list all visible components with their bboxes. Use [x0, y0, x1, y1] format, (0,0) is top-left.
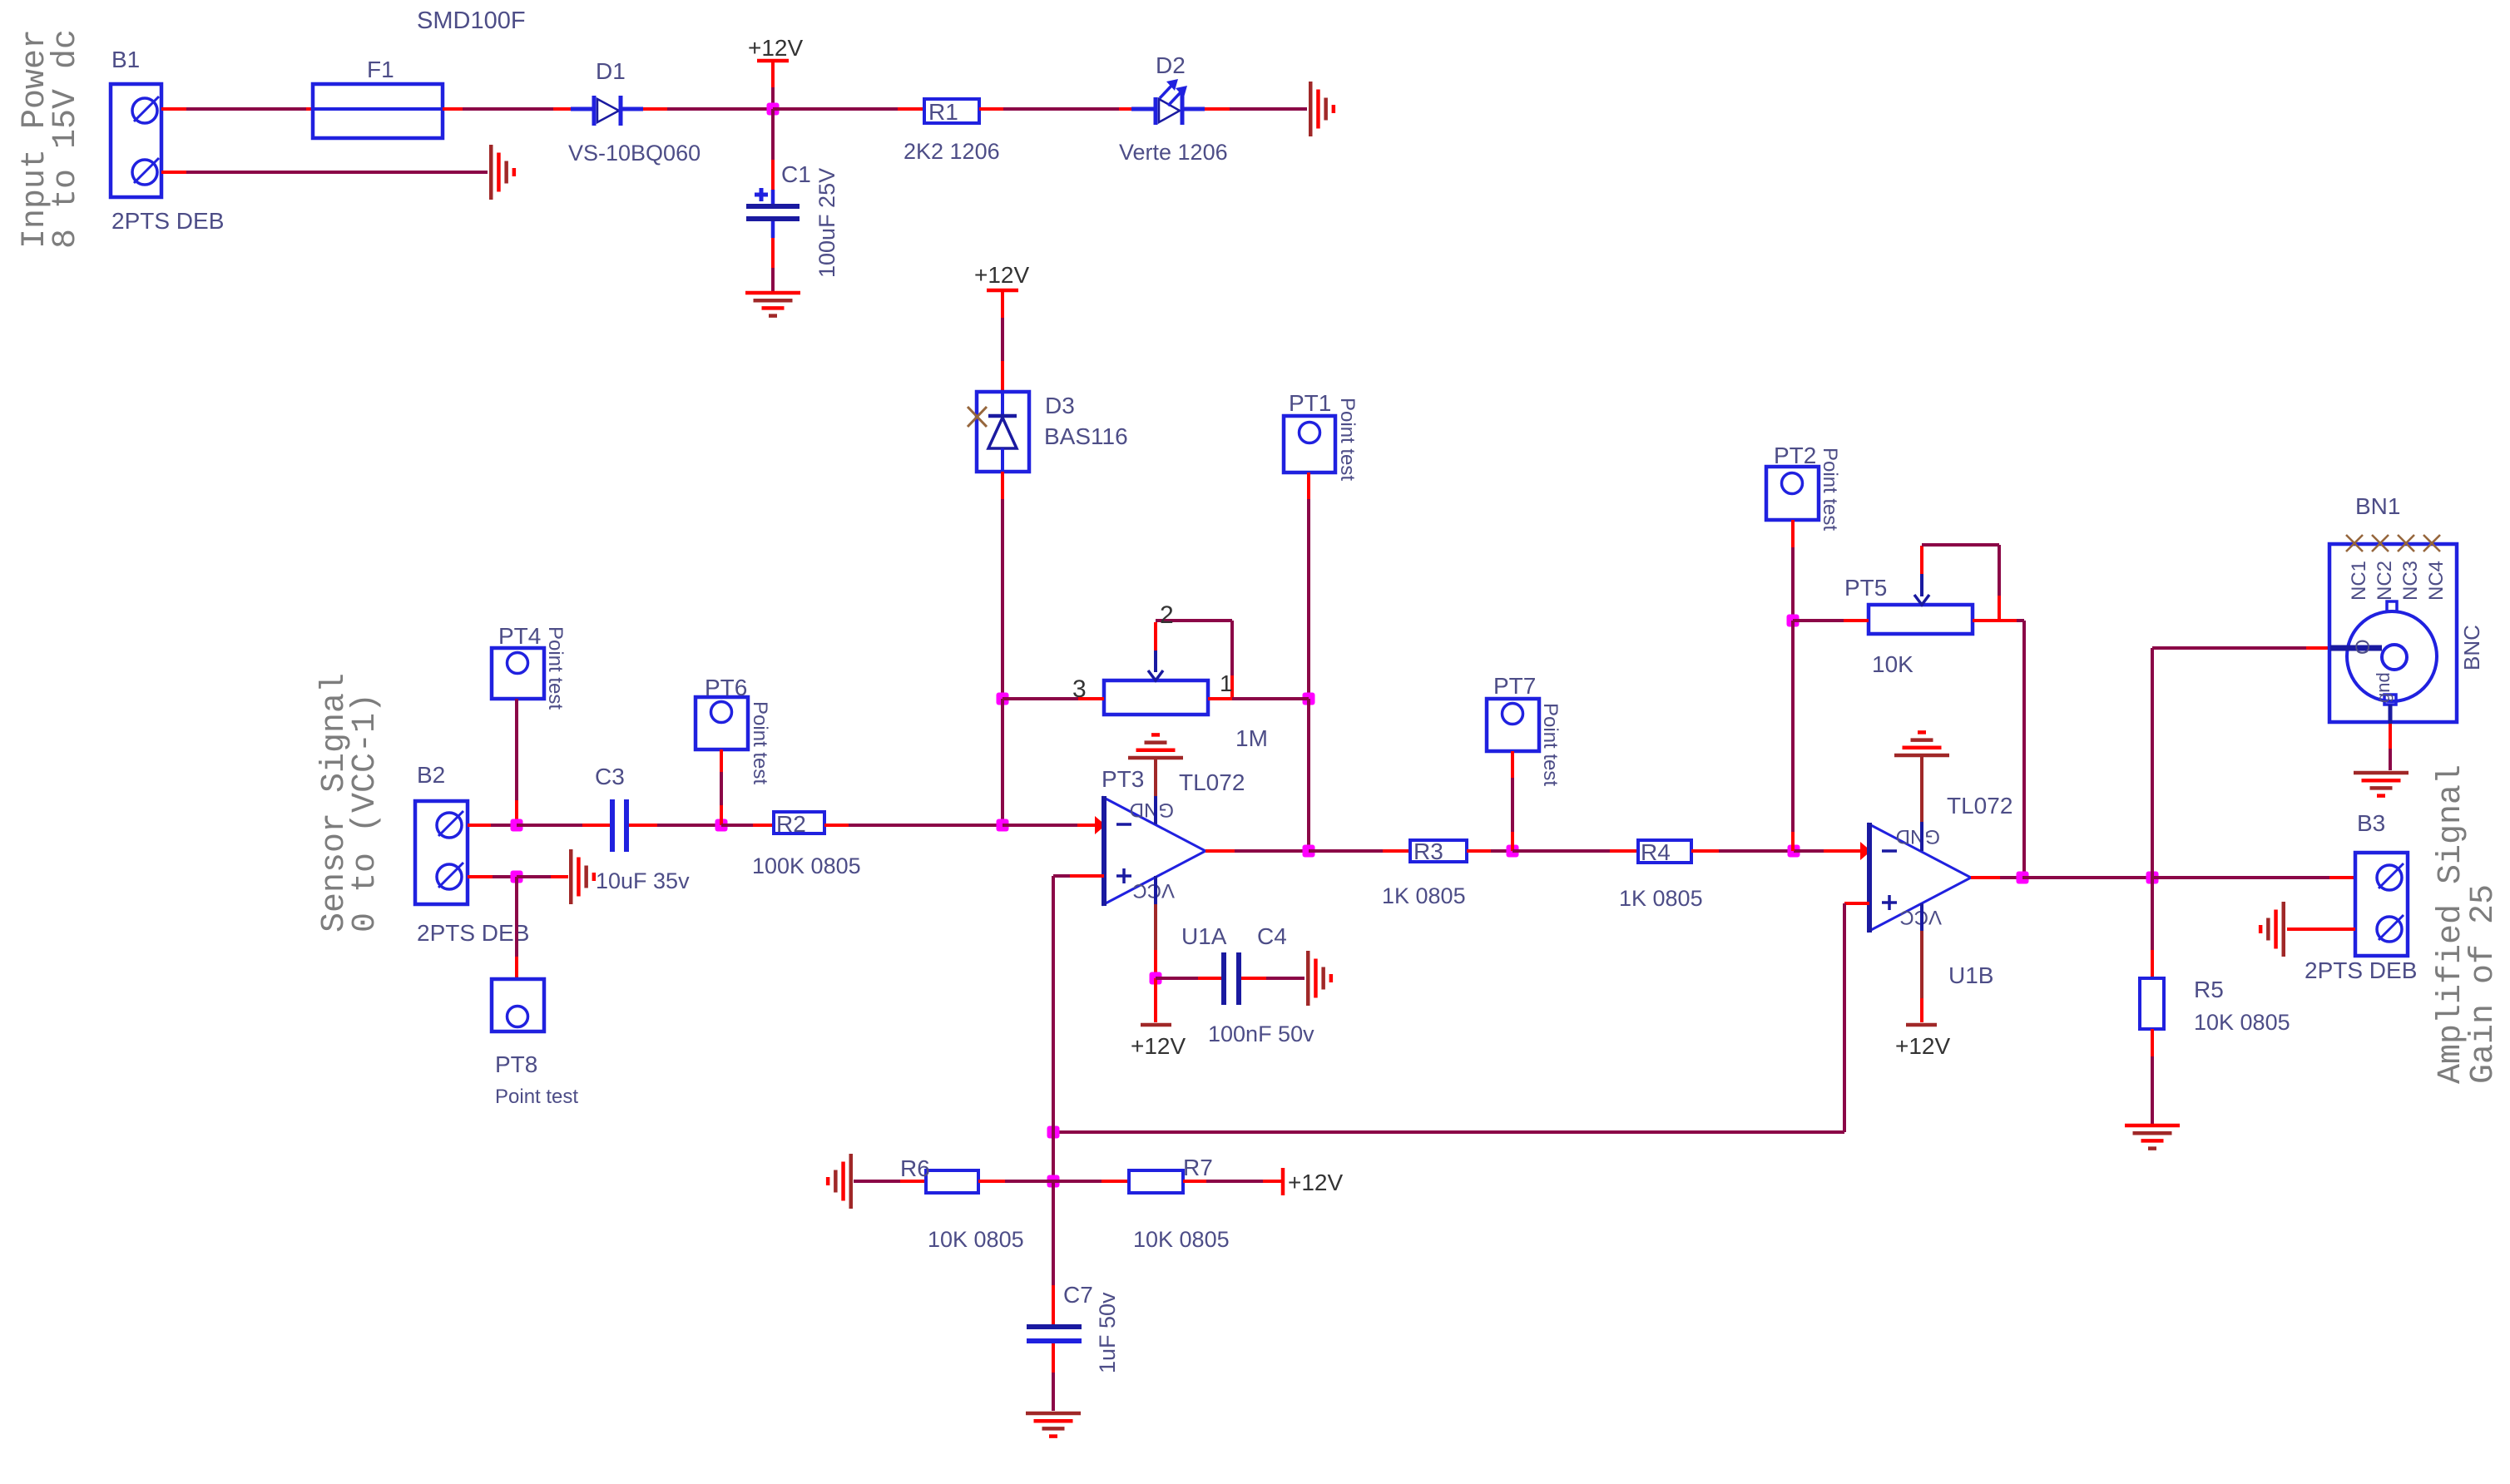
- svg-text:Point test: Point test: [1336, 398, 1359, 481]
- trimmer PT5 pin2 loop: [1922, 543, 1999, 547]
- wire node up to BNC row: [2151, 648, 2154, 878]
- wire PT1 down: [1307, 472, 1310, 499]
- svg-text:PT2: PT2: [1774, 443, 1816, 468]
- resistor R2: [774, 812, 824, 834]
- svg-text:2PTS DEB: 2PTS DEB: [2305, 957, 2417, 983]
- svg-text:R4: R4: [1641, 839, 1671, 865]
- svg-text:F1: F1: [367, 57, 394, 82]
- svg-text:R6: R6: [900, 1155, 930, 1181]
- BNC bottom tab: [2384, 695, 2396, 705]
- ground R6: [849, 1154, 854, 1209]
- power +12V for D3: [987, 289, 1018, 293]
- wire node to R7: [1053, 1180, 1102, 1183]
- svg-text:R7: R7: [1183, 1155, 1213, 1180]
- wire plus column: [1052, 876, 1055, 1132]
- svg-text:R5: R5: [2194, 977, 2224, 1002]
- test point PT4: [492, 648, 544, 699]
- wire B2 pin2 to node: [468, 824, 491, 827]
- svg-text:C7: C7: [1063, 1282, 1093, 1308]
- BNC inner circle: [2382, 645, 2407, 670]
- connector B3: [2355, 853, 2408, 956]
- connector B1: [111, 84, 161, 197]
- node U1A output: [1303, 845, 1315, 858]
- wire R5 column: [2151, 878, 2154, 950]
- node U1B output/PT5: [2017, 872, 2029, 884]
- LED D2: [1131, 107, 1154, 111]
- connector BN1 outline: [2329, 544, 2457, 722]
- trimmer 1M pin2 loop: [1156, 619, 1232, 622]
- resistor R7: [1129, 1170, 1183, 1193]
- ground C1: [745, 291, 800, 295]
- svg-text:NC3: NC3: [2399, 561, 2422, 601]
- svg-text:+12V: +12V: [1288, 1170, 1343, 1195]
- node R2/D3 line: [997, 819, 1009, 832]
- svg-text:PT1: PT1: [1289, 390, 1331, 416]
- wire B1 pin1 to ground: [161, 171, 186, 174]
- wire plus input down to feedback: [1843, 903, 1846, 1132]
- svg-text:TL072: TL072: [1947, 793, 2012, 819]
- wire R5 to ground: [2151, 1029, 2154, 1056]
- node R3/R4/PT7: [1507, 845, 1519, 858]
- wire node down to signal row: [1001, 699, 1004, 825]
- BNC top tab: [2387, 601, 2397, 611]
- U1B GND pin stub: [1920, 822, 1923, 851]
- node 1M pin1 / PT1: [1303, 693, 1315, 705]
- wire F1 to D1: [443, 107, 463, 111]
- svg-text:C4: C4: [1257, 923, 1287, 949]
- U1A GND pin stub: [1154, 796, 1157, 824]
- svg-text:10K 0805: 10K 0805: [1133, 1227, 1230, 1252]
- svg-text:Verte 1206: Verte 1206: [1119, 140, 1228, 165]
- svg-text:1M: 1M: [1235, 725, 1268, 751]
- ground C4: [1306, 951, 1310, 1006]
- svg-text:8 to 15V dc: 8 to 15V dc: [47, 29, 85, 249]
- svg-text:2PTS DEB: 2PTS DEB: [417, 920, 529, 946]
- svg-text:VCC: VCC: [1132, 879, 1175, 902]
- wire output node to R3: [1309, 849, 1383, 853]
- svg-text:VS-10BQ060: VS-10BQ060: [568, 141, 701, 166]
- wire R7 to +12V: [1183, 1180, 1206, 1183]
- wire ground to U1B GND pin: [1920, 757, 1923, 822]
- test point PT7: [1487, 699, 1539, 751]
- node B2/PT4: [511, 819, 523, 832]
- wire U1A output: [1205, 849, 1235, 853]
- ground C7: [1026, 1412, 1081, 1416]
- wire node to R4: [1512, 849, 1610, 853]
- test point PT6: [696, 697, 748, 749]
- svg-text:R1: R1: [928, 99, 958, 125]
- wire node to U1A minus: [1003, 824, 1077, 827]
- wire R6 to node: [978, 1180, 1005, 1183]
- svg-text:R3: R3: [1413, 838, 1443, 864]
- svg-text:NC1: NC1: [2348, 561, 2370, 601]
- feedback wire long: [1053, 1130, 1844, 1134]
- wire node to R2: [721, 824, 753, 827]
- svg-text:PT7: PT7: [1493, 673, 1536, 699]
- svg-text:BNC: BNC: [2459, 625, 2484, 670]
- resistor R6: [926, 1170, 978, 1193]
- svg-text:BN1: BN1: [2355, 493, 2400, 519]
- svg-text:Gain of 25: Gain of 25: [2465, 884, 2503, 1084]
- wire PT8 from node: [515, 877, 518, 957]
- node PT2/PT5: [1787, 615, 1800, 627]
- wire ground to U1A GND pin: [1154, 759, 1157, 796]
- svg-text:O: O: [2352, 639, 2374, 655]
- no-connect X mark on D3: [968, 407, 987, 427]
- power +12V right of R7: [1281, 1168, 1285, 1195]
- wire PT5 down to U1B output: [2022, 621, 2026, 878]
- trimmer 1M body: [1104, 680, 1208, 715]
- test point PT1: [1284, 416, 1335, 472]
- connector B2: [415, 801, 468, 904]
- svg-text:TL072: TL072: [1179, 769, 1245, 795]
- node bias divider: [1047, 1175, 1060, 1188]
- svg-text:100nF 50v: 100nF 50v: [1208, 1021, 1314, 1046]
- wire C7 to ground: [1052, 1343, 1055, 1373]
- trimmer PT5 wiper arrow: [1920, 546, 1923, 574]
- resistor R5: [2140, 978, 2164, 1029]
- ground B3 return: [2282, 902, 2286, 957]
- diode D3 BAS116: [977, 392, 1029, 472]
- svg-text:+12V: +12V: [1895, 1033, 1950, 1059]
- wire +12V to D3: [1001, 292, 1004, 318]
- svg-text:2K2 1206: 2K2 1206: [904, 139, 1000, 164]
- U1A VCC wire down: [1154, 904, 1157, 950]
- power +12V below U1A: [1141, 1023, 1171, 1027]
- input arrow U1A: [1095, 816, 1106, 834]
- svg-text:BAS116: BAS116: [1044, 423, 1128, 449]
- svg-text:2: 2: [1160, 601, 1174, 629]
- wire node down to C7: [1052, 1181, 1055, 1285]
- wire output to R5 node: [2022, 876, 2152, 879]
- svg-text:PT5: PT5: [1844, 575, 1887, 601]
- wire PT5 left pin: [1793, 619, 1844, 622]
- svg-text:Point test: Point test: [1819, 448, 1841, 531]
- wire node to ground C3 side: [517, 875, 551, 878]
- svg-text:B1: B1: [111, 47, 140, 72]
- svg-text:1K 0805: 1K 0805: [1619, 886, 1703, 911]
- wire R1 to D2: [979, 107, 1003, 111]
- svg-text:C3: C3: [595, 764, 625, 789]
- svg-text:B2: B2: [417, 762, 445, 788]
- wire R3 to node PT7: [1467, 849, 1491, 853]
- wire feedback node down to bias node: [1052, 1132, 1055, 1181]
- ground sensor return: [569, 849, 573, 904]
- svg-text:PT6: PT6: [705, 675, 747, 700]
- wire +12V stem: [771, 62, 775, 87]
- wire node to U1B minus: [1794, 849, 1824, 853]
- wire D3 to node 1M pin3: [1001, 472, 1004, 499]
- wire node down to U1B minus row: [1791, 621, 1795, 832]
- wire BNC gnd down: [2389, 705, 2393, 724]
- node R5/BNC: [2146, 872, 2159, 884]
- svg-text:1K 0805: 1K 0805: [1382, 883, 1466, 908]
- wire ground to R6: [854, 1180, 900, 1183]
- capacitor C7: [1027, 1324, 1082, 1329]
- svg-text:gnd: gnd: [2373, 672, 2394, 703]
- svg-text:0 to (VCC-1): 0 to (VCC-1): [347, 693, 384, 932]
- wire B2 pin1: [468, 875, 493, 878]
- wire PT6 down: [720, 749, 723, 772]
- capacitor C3: [610, 799, 615, 852]
- node U1A VCC / C4: [1150, 972, 1162, 985]
- capacitor C4: [1221, 952, 1226, 1005]
- svg-text:NC4: NC4: [2425, 561, 2448, 601]
- svg-text:100uF 25V: 100uF 25V: [814, 168, 839, 278]
- svg-text:+12V: +12V: [1131, 1033, 1186, 1059]
- svg-text:Point test: Point test: [749, 701, 771, 784]
- wire C4 to ground: [1241, 977, 1266, 980]
- resistor R4: [1638, 840, 1691, 863]
- svg-text:D3: D3: [1045, 393, 1075, 418]
- svg-text:U1A: U1A: [1181, 923, 1227, 949]
- wire U1A plus input: [1053, 874, 1070, 878]
- resistor R1: [924, 99, 979, 123]
- svg-text:PT3: PT3: [1102, 766, 1144, 792]
- svg-text:PT8: PT8: [495, 1051, 537, 1077]
- svg-text:10K 0805: 10K 0805: [2194, 1010, 2290, 1035]
- wire U1B output: [1971, 876, 2000, 879]
- wire VCC node to +12V: [1154, 978, 1157, 1022]
- node C1/+12V junction: [767, 103, 780, 116]
- node R4/PT2 line: [1788, 845, 1800, 858]
- wire B1 pin2 to F1: [161, 107, 186, 111]
- no-connect X marks BN1: [2346, 535, 2363, 552]
- svg-text:Point test: Point test: [544, 626, 567, 710]
- wire U1B plus input: [1844, 902, 1869, 905]
- wire ground to B3 pin2: [2287, 927, 2355, 931]
- svg-text:NC2: NC2: [2374, 561, 2396, 601]
- trimmer 1M wiper arrow: [1154, 622, 1157, 650]
- ground R5: [2125, 1124, 2180, 1128]
- svg-text:U1B: U1B: [1948, 962, 1993, 988]
- test point PT2: [1766, 467, 1819, 520]
- node feedback: [1047, 1126, 1060, 1139]
- svg-text:+12V: +12V: [748, 35, 803, 61]
- U1A VCC pin stub: [1154, 876, 1157, 904]
- diode D1: [571, 107, 593, 111]
- node C3/PT6: [715, 819, 728, 832]
- svg-text:10K: 10K: [1872, 651, 1913, 677]
- svg-text:R2: R2: [776, 811, 806, 837]
- svg-text:SMD100F: SMD100F: [417, 7, 526, 34]
- ground LED: [1309, 82, 1313, 136]
- wire PT5 right pin: [1973, 619, 2017, 622]
- svg-text:10K 0805: 10K 0805: [928, 1227, 1024, 1252]
- op-amp U1B: [1869, 824, 1971, 931]
- power +12V below U1B: [1906, 1023, 1937, 1027]
- svg-text:C1: C1: [781, 161, 811, 187]
- svg-text:10uF 35v: 10uF 35v: [596, 868, 690, 893]
- resistor R3: [1410, 840, 1467, 862]
- node D3/1M pin 3: [997, 693, 1009, 705]
- capacitor C1: [746, 204, 800, 209]
- wire C1 to ground: [771, 221, 775, 238]
- U1B VCC wire down: [1920, 931, 1923, 998]
- wire 1M pin1: [1208, 697, 1232, 700]
- power +12V top: [757, 59, 789, 63]
- wire D1 to node +12V: [643, 107, 667, 111]
- ground above U1B: [1894, 754, 1949, 758]
- ground above U1A (PT3): [1128, 756, 1183, 760]
- svg-text:D1: D1: [596, 58, 626, 84]
- test point PT8: [492, 979, 544, 1031]
- op-amp U1A: [1104, 798, 1205, 904]
- wire 1M pin3: [1003, 697, 1078, 700]
- svg-text:GND: GND: [1896, 825, 1940, 848]
- wire PT7 down: [1511, 751, 1514, 778]
- BNC signal pin: [2330, 646, 2382, 651]
- wire PT4 down to node: [515, 699, 518, 800]
- svg-text:Point test: Point test: [495, 1086, 578, 1108]
- capacitor C1 lead top: [771, 109, 775, 160]
- wire node to C3: [517, 824, 582, 827]
- wire D2 to ground: [1205, 107, 1230, 111]
- wire R4 to U1B node: [1691, 849, 1719, 853]
- wire C3 to node PT6: [629, 824, 657, 827]
- svg-text:+12V: +12V: [974, 262, 1029, 288]
- input arrow U1B: [1860, 842, 1871, 860]
- wire PT1 node down to U1A output row: [1307, 699, 1310, 851]
- wire BNC row: [2152, 646, 2306, 650]
- svg-text:B3: B3: [2357, 810, 2385, 836]
- svg-text:GND: GND: [1130, 799, 1174, 821]
- trimmer PT5 body: [1869, 605, 1973, 634]
- svg-text:1uF 50v: 1uF 50v: [1095, 1292, 1120, 1373]
- U1B VCC pin stub: [1920, 903, 1923, 931]
- BNC circle: [2347, 611, 2437, 701]
- ground B1 return: [489, 145, 493, 200]
- wire R2 to U1A input: [824, 824, 849, 827]
- svg-text:2PTS DEB: 2PTS DEB: [111, 208, 224, 234]
- svg-text:PT4: PT4: [498, 623, 541, 649]
- node B2 pin1 / PT8: [511, 871, 523, 883]
- wire node to C4: [1156, 977, 1198, 980]
- svg-text:Point test: Point test: [1539, 703, 1562, 786]
- ground BNC: [2354, 771, 2409, 775]
- capacitor C1 polarity +: [755, 193, 768, 197]
- svg-text:1: 1: [1220, 670, 1233, 696]
- fuse F1: [313, 84, 443, 138]
- svg-text:100K 0805: 100K 0805: [752, 853, 861, 878]
- wire PT2 down: [1791, 520, 1795, 547]
- svg-text:D2: D2: [1156, 52, 1186, 78]
- wire node to B3 pin1: [2152, 876, 2329, 879]
- wire node to R1: [773, 107, 898, 111]
